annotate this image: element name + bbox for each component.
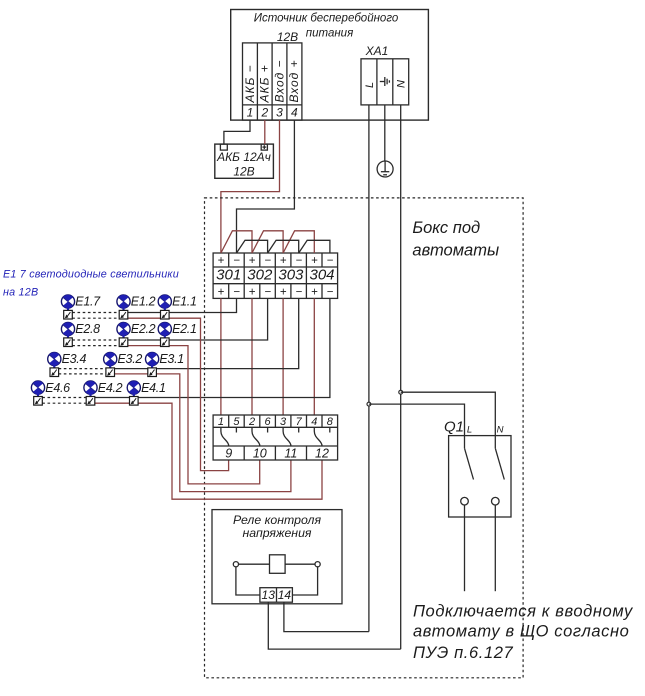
wire plus Е4.2 to Е4.1 bbox=[95, 402, 130, 404]
svg-text:1: 1 bbox=[247, 106, 254, 120]
svg-text:автоматы: автоматы bbox=[412, 242, 499, 260]
svg-text:6: 6 bbox=[265, 416, 272, 428]
LED lamp Е2.2 bbox=[117, 322, 130, 346]
wire E3.1 plus to relay 11 bbox=[156, 374, 291, 492]
svg-text:302: 302 bbox=[247, 267, 273, 284]
svg-text:L: L bbox=[364, 82, 376, 88]
jumper minus 302-303 bbox=[268, 240, 299, 253]
dashed continuation wires row Е1.7 bbox=[72, 312, 119, 314]
wire 301 plus to relay 1 bbox=[220, 298, 222, 415]
svg-text:Подключается к вводному: Подключается к вводному bbox=[413, 603, 634, 621]
jumper plus 303-304 bbox=[283, 231, 314, 253]
relay contact terminal block top row 1,5,2,6,3,7,4,8 bbox=[213, 415, 338, 460]
svg-text:−: − bbox=[233, 286, 240, 298]
svg-text:Е4.6: Е4.6 bbox=[45, 381, 70, 395]
svg-text:Е1.2: Е1.2 bbox=[131, 295, 156, 309]
svg-text:−: − bbox=[264, 255, 271, 267]
LED lamp Е2.8 bbox=[61, 322, 74, 346]
svg-text:+: + bbox=[249, 286, 256, 298]
wire minus Е1.2 to Е1.1 bbox=[128, 312, 161, 314]
svg-text:Е1 7 светодиодные светильник: Е1 7 светодиодные светильники bbox=[3, 269, 179, 281]
svg-text:14: 14 bbox=[278, 588, 292, 602]
LED lamp Е4.2 bbox=[84, 381, 97, 405]
svg-text:303: 303 bbox=[278, 267, 304, 284]
wire minus Е4.2 to Е4.1 bbox=[95, 397, 130, 399]
wire relay 13 to N line bbox=[268, 602, 400, 649]
svg-text:+: + bbox=[311, 255, 318, 267]
block 301-304 polarity signs top row bbox=[218, 255, 334, 267]
connector XA1 bbox=[361, 44, 409, 105]
UPS box U1 Источник бесперебойного питания bbox=[231, 10, 429, 121]
relay contact 3 bbox=[283, 427, 299, 445]
svg-text:+: + bbox=[280, 255, 287, 267]
svg-text:Е3.2: Е3.2 bbox=[118, 352, 143, 366]
wire 302 minus to E2.1 bbox=[169, 298, 268, 340]
svg-text:Е2.2: Е2.2 bbox=[131, 322, 156, 336]
wire E4.1 plus to relay 12 bbox=[138, 403, 322, 499]
svg-text:Вход −: Вход − bbox=[272, 59, 286, 102]
LED lamp Е4.6 bbox=[31, 381, 44, 405]
svg-text:Е1.7: Е1.7 bbox=[75, 295, 101, 309]
jumper minus 301-302 bbox=[237, 240, 268, 253]
svg-text:−: − bbox=[327, 255, 334, 267]
LED lamp Е1.7 bbox=[61, 295, 74, 319]
svg-text:+: + bbox=[249, 255, 256, 267]
svg-text:АКБ −: АКБ − bbox=[243, 64, 257, 103]
relay contact 4 bbox=[314, 427, 330, 445]
svg-text:питания: питания bbox=[306, 27, 353, 39]
breaker Q1 bbox=[444, 419, 511, 518]
svg-text:Реле контроля: Реле контроля bbox=[233, 513, 322, 527]
LED lamp Е4.1 bbox=[127, 381, 140, 405]
UPS terminal block pins 1-4 bbox=[243, 43, 302, 120]
jumper plus 302-303 bbox=[252, 231, 283, 253]
svg-text:12В: 12В bbox=[277, 30, 298, 44]
wire 304 plus to relay 4 bbox=[313, 298, 315, 415]
svg-text:12: 12 bbox=[315, 446, 329, 460]
dashed continuation wires row Е3.4 bbox=[59, 368, 106, 370]
wire relay 14 to L line bbox=[284, 602, 369, 631]
svg-text:9: 9 bbox=[225, 446, 232, 460]
node N tap bbox=[399, 390, 403, 394]
relay coil terminals 13 14 bbox=[260, 588, 293, 603]
svg-text:N: N bbox=[497, 425, 504, 436]
wire UPS pin2 to battery plus bbox=[264, 120, 266, 144]
dashed continuation wires row Е4.6 bbox=[42, 397, 86, 399]
svg-text:−: − bbox=[264, 286, 271, 298]
svg-text:автомату в ЩО согласно: автомату в ЩО согласно bbox=[413, 623, 629, 641]
wire 303 plus to relay 3 bbox=[282, 298, 284, 415]
svg-text:2: 2 bbox=[248, 416, 255, 428]
svg-text:Е1.1: Е1.1 bbox=[172, 295, 197, 309]
svg-text:N: N bbox=[396, 80, 408, 88]
wire 301 minus to E1.1 bbox=[169, 298, 236, 312]
svg-text:Е4.2: Е4.2 bbox=[98, 381, 123, 395]
svg-text:+: + bbox=[280, 286, 287, 298]
svg-text:301: 301 bbox=[216, 267, 241, 284]
wire XA1 PE to ground bbox=[384, 105, 386, 161]
note text bottom bbox=[413, 603, 634, 663]
enclosure dashed box Бокс под автоматы bbox=[205, 198, 524, 678]
svg-text:1: 1 bbox=[218, 416, 224, 428]
svg-text:8: 8 bbox=[327, 416, 334, 428]
svg-text:Е3.4: Е3.4 bbox=[62, 352, 87, 366]
breaker Q1 pole L bbox=[461, 436, 474, 592]
svg-text:3: 3 bbox=[276, 106, 283, 120]
wire plus Е2.2 to Е2.1 bbox=[128, 345, 161, 347]
wire plus Е1.2 to Е1.1 bbox=[128, 317, 161, 319]
relay contact 1 bbox=[221, 427, 237, 445]
svg-text:Вход +: Вход + bbox=[287, 59, 301, 102]
svg-text:13: 13 bbox=[262, 588, 276, 602]
relay K1 box Реле контроля напряжения bbox=[212, 510, 342, 604]
svg-text:ПУЭ п.6.127: ПУЭ п.6.127 bbox=[413, 644, 513, 662]
wire minus Е2.2 to Е2.1 bbox=[128, 339, 161, 341]
wire 303 minus to E3.1 bbox=[156, 298, 298, 368]
block 301-304 polarity signs bottom row bbox=[218, 286, 334, 298]
svg-text:5: 5 bbox=[233, 416, 240, 428]
LED lamp Е3.1 bbox=[146, 352, 159, 376]
jumper plus 301-302 bbox=[221, 231, 252, 253]
svg-text:11: 11 bbox=[284, 446, 297, 460]
svg-text:304: 304 bbox=[309, 267, 334, 284]
XA1 PE pin ground glyph (rotated) bbox=[380, 77, 390, 86]
svg-text:10: 10 bbox=[253, 446, 267, 460]
svg-text:Е4.1: Е4.1 bbox=[141, 381, 166, 395]
wire N tap to Q1 bbox=[401, 392, 496, 435]
ground symbol PE bbox=[377, 161, 393, 177]
battery GB1 АКБ 12Ач 12В bbox=[215, 144, 274, 178]
svg-text:2: 2 bbox=[260, 106, 268, 120]
wire 302 plus to relay 2 bbox=[251, 298, 253, 415]
svg-text:12В: 12В bbox=[233, 165, 254, 179]
svg-text:Е2.1: Е2.1 bbox=[172, 322, 197, 336]
svg-text:3: 3 bbox=[280, 416, 287, 428]
svg-text:+: + bbox=[218, 286, 225, 298]
wire UPS pin4 to block 301 minus bbox=[237, 120, 295, 253]
wire L tap to Q1 bbox=[369, 404, 465, 436]
svg-text:Е2.8: Е2.8 bbox=[75, 322, 100, 336]
node L tap bbox=[367, 402, 371, 406]
svg-text:4: 4 bbox=[291, 106, 298, 120]
LED lamp Е2.1 bbox=[158, 322, 171, 346]
svg-text:−: − bbox=[295, 255, 302, 267]
svg-text:4: 4 bbox=[311, 416, 317, 428]
wire L line bbox=[368, 105, 370, 632]
LED lamp Е3.2 bbox=[104, 352, 117, 376]
svg-text:Е3.1: Е3.1 bbox=[159, 352, 184, 366]
jumper minus 303-304 bbox=[299, 240, 330, 253]
wire 304 minus to E4.1 bbox=[138, 298, 330, 397]
relay contact 2 bbox=[252, 427, 268, 445]
breaker Q1 pole N bbox=[492, 436, 505, 592]
svg-text:Бокс под: Бокс под bbox=[412, 219, 480, 237]
svg-text:Q1: Q1 bbox=[444, 419, 464, 436]
svg-text:Источник бесперебойного: Источник бесперебойного bbox=[254, 12, 399, 24]
relay coil bbox=[233, 555, 320, 595]
svg-text:АКБ 12Ач: АКБ 12Ач bbox=[216, 150, 271, 164]
svg-text:L: L bbox=[467, 425, 472, 436]
wire E1.1 plus to relay 9 bbox=[169, 318, 229, 470]
dashed continuation wires row Е2.8 bbox=[72, 339, 119, 341]
wire UPS pin3 to block 301 plus bbox=[221, 120, 280, 253]
svg-text:7: 7 bbox=[296, 416, 303, 428]
LED lamp Е1.2 bbox=[117, 295, 130, 319]
terminal block 301-304 bbox=[213, 253, 338, 298]
svg-text:XA1: XA1 bbox=[365, 44, 389, 58]
svg-text:+: + bbox=[311, 286, 318, 298]
LED lamp Е3.4 bbox=[48, 352, 61, 376]
LED lamp Е1.1 bbox=[158, 295, 171, 319]
wire minus Е3.2 to Е3.1 bbox=[115, 368, 148, 370]
svg-text:−: − bbox=[233, 255, 240, 267]
wire E2.1 plus to relay 10 bbox=[169, 346, 260, 484]
wire UPS pin1 to battery minus bbox=[224, 120, 250, 144]
wire plus Е3.2 to Е3.1 bbox=[115, 373, 148, 375]
svg-text:напряжения: напряжения bbox=[243, 526, 312, 540]
LED header label bbox=[3, 269, 179, 299]
wire N line bbox=[400, 105, 402, 649]
svg-text:−: − bbox=[295, 286, 302, 298]
svg-text:+: + bbox=[218, 255, 225, 267]
svg-text:на 12В: на 12В bbox=[3, 287, 38, 299]
svg-text:−: − bbox=[327, 286, 334, 298]
svg-text:АКБ +: АКБ + bbox=[258, 64, 272, 103]
